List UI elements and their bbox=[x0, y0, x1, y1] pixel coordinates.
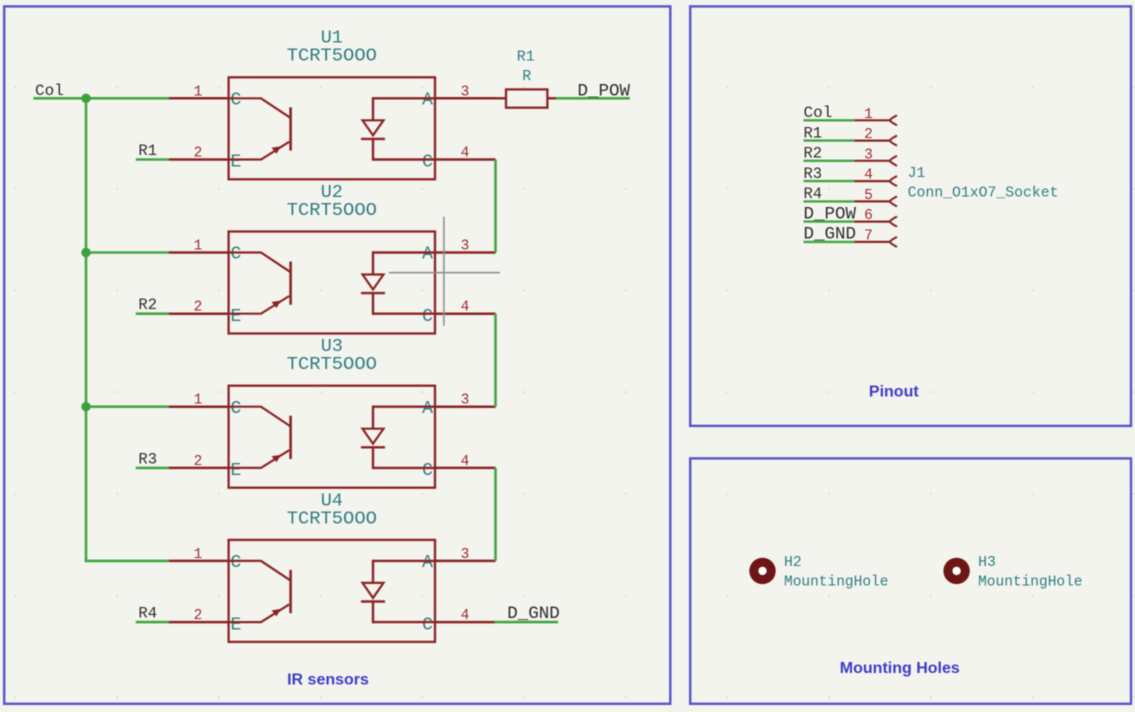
svg-text:R1: R1 bbox=[138, 142, 157, 160]
U2 pin 1 (C) bbox=[169, 251, 229, 254]
svg-text:Conn_O1xO7_Socket: Conn_O1xO7_Socket bbox=[908, 186, 1059, 202]
J1 pin 5 wire bbox=[804, 200, 855, 202]
J1 pin 5 bbox=[854, 200, 890, 202]
svg-text:A: A bbox=[422, 553, 433, 573]
group box: Pinout section bbox=[690, 6, 1131, 426]
svg-text:1: 1 bbox=[194, 239, 203, 255]
svg-text:C: C bbox=[422, 461, 433, 481]
svg-text:C: C bbox=[422, 615, 433, 635]
svg-text:J1: J1 bbox=[908, 166, 926, 182]
wire: vertical bus Col bbox=[85, 98, 88, 561]
svg-text:4: 4 bbox=[461, 146, 470, 162]
group box: Mounting Holes section bbox=[690, 458, 1131, 703]
U2 pin 2 (E) bbox=[169, 312, 229, 315]
svg-text:E: E bbox=[230, 461, 241, 481]
svg-text:C: C bbox=[422, 307, 433, 327]
U4 pin 4 (C) bbox=[435, 621, 496, 624]
connector J1 Conn_01x07_Socket bbox=[804, 104, 1059, 247]
R1 body bbox=[506, 89, 547, 107]
svg-text:4: 4 bbox=[864, 168, 873, 184]
svg-text:2: 2 bbox=[194, 300, 203, 316]
U2 pin 4 (C) bbox=[435, 312, 496, 315]
svg-text:H2: H2 bbox=[784, 555, 802, 571]
U3 pin 2 (E) bbox=[169, 467, 229, 470]
svg-text:Mounting Holes: Mounting Holes bbox=[840, 660, 960, 677]
svg-text:C: C bbox=[230, 245, 241, 265]
U1 phototransistor bbox=[229, 98, 290, 117]
svg-text:D_POW: D_POW bbox=[578, 82, 631, 102]
wire: branch to U3 pin 1 bbox=[86, 405, 169, 408]
U2 phototransistor bbox=[229, 253, 290, 272]
svg-text:4: 4 bbox=[461, 300, 470, 316]
J1 pin 3 socket contact bbox=[890, 156, 897, 166]
svg-text:R1: R1 bbox=[517, 49, 535, 66]
svg-text:E: E bbox=[230, 307, 241, 327]
svg-text:5: 5 bbox=[864, 188, 873, 204]
wire: U2 pin4 to U3 pin3 bbox=[494, 314, 497, 407]
wire: R2 to U2 pin 2 bbox=[136, 312, 169, 315]
svg-text:E: E bbox=[230, 615, 241, 635]
U1 pin 1 (C) bbox=[169, 97, 229, 100]
wire: branch to U4 pin 1 bbox=[85, 560, 169, 563]
svg-text:TCRT5OOO: TCRT5OOO bbox=[287, 199, 377, 221]
J1 pin 4 bbox=[854, 180, 890, 182]
svg-text:4: 4 bbox=[461, 454, 470, 470]
J1 pin 6 socket contact bbox=[890, 217, 897, 227]
U3 photodiode bbox=[373, 406, 435, 408]
svg-text:C: C bbox=[230, 553, 241, 573]
U4 pin 1 (C) bbox=[169, 560, 229, 563]
R1 left lead bbox=[496, 97, 507, 99]
optocoupler U2 TCRT5000 bbox=[169, 182, 496, 334]
J1 pin 7 socket contact bbox=[890, 237, 897, 247]
wire: R1 to U1 pin 2 bbox=[136, 158, 169, 161]
svg-text:H3: H3 bbox=[978, 555, 996, 571]
svg-text:1: 1 bbox=[194, 84, 203, 100]
wire: R4 to U4 pin 2 bbox=[136, 621, 169, 624]
svg-text:D_GND: D_GND bbox=[507, 604, 560, 624]
optocoupler U1 TCRT5000 bbox=[169, 28, 496, 180]
J1 pin 1 wire bbox=[804, 119, 855, 121]
svg-text:1: 1 bbox=[864, 107, 873, 123]
U3 body bbox=[229, 386, 435, 488]
U4 body bbox=[229, 540, 435, 642]
J1 pin 7 bbox=[854, 241, 890, 243]
svg-text:3: 3 bbox=[461, 84, 470, 100]
svg-text:R4: R4 bbox=[138, 605, 157, 623]
svg-text:1: 1 bbox=[194, 547, 203, 563]
mounting hole H3 bbox=[943, 555, 1082, 591]
svg-text:R: R bbox=[522, 68, 531, 85]
junction at Col / U1 branch bbox=[81, 94, 90, 103]
svg-text:R2: R2 bbox=[138, 296, 157, 314]
J1 pin 4 socket contact bbox=[890, 176, 897, 186]
svg-text:TCRT5OOO: TCRT5OOO bbox=[287, 45, 377, 67]
svg-text:A: A bbox=[422, 399, 433, 419]
U3 pin 3 (A) bbox=[435, 405, 496, 408]
svg-text:A: A bbox=[422, 245, 433, 265]
U2 body bbox=[229, 232, 435, 334]
J1 pin 6 bbox=[854, 221, 890, 223]
J1 pin 2 bbox=[854, 140, 890, 142]
U4 phototransistor bbox=[229, 561, 290, 580]
wire: U3 pin4 to U4 pin3 bbox=[494, 468, 497, 561]
U2 photodiode bbox=[373, 251, 435, 253]
wire: R1 to D_POW bbox=[556, 97, 630, 100]
svg-text:6: 6 bbox=[864, 208, 873, 224]
svg-text:3: 3 bbox=[864, 147, 873, 163]
U4 pin 3 (A) bbox=[435, 560, 496, 563]
wire: branch to U2 pin 1 bbox=[86, 251, 169, 254]
U1 pin 3 (A) bbox=[435, 97, 496, 100]
J1 pin 1 bbox=[854, 119, 890, 121]
svg-text:3: 3 bbox=[461, 239, 470, 255]
svg-text:MountingHole: MountingHole bbox=[978, 575, 1082, 591]
mounting hole H2 bbox=[749, 555, 888, 591]
J1 pin 2 wire bbox=[804, 139, 855, 141]
U1 pin 2 (E) bbox=[169, 158, 229, 161]
svg-text:MountingHole: MountingHole bbox=[784, 575, 888, 591]
wire: U4 pin4 to D_GND bbox=[494, 621, 558, 624]
J1 pin 5 socket contact bbox=[890, 196, 897, 206]
svg-text:4: 4 bbox=[461, 608, 470, 624]
svg-text:TCRT5OOO: TCRT5OOO bbox=[287, 353, 377, 375]
U2 pin 3 (A) bbox=[435, 251, 496, 254]
svg-text:3: 3 bbox=[461, 547, 470, 563]
J1 pin 4 wire bbox=[804, 180, 855, 182]
J1 pin 1 socket contact bbox=[890, 115, 897, 125]
optocoupler U4 TCRT5000 bbox=[169, 490, 496, 642]
wire: R3 to U3 pin 2 bbox=[136, 467, 169, 470]
J1 pin 6 wire bbox=[804, 220, 855, 222]
J1 pin 3 bbox=[854, 160, 890, 162]
editor cursor crosshair bbox=[389, 217, 500, 326]
R1 right lead bbox=[547, 97, 556, 99]
svg-text:Pinout: Pinout bbox=[869, 384, 919, 401]
svg-text:2: 2 bbox=[194, 608, 203, 624]
U4 photodiode bbox=[373, 560, 435, 562]
resistor R1 bbox=[496, 49, 557, 108]
J1 pin 7 wire bbox=[804, 241, 855, 243]
wire: Col to U1 pin 1 bbox=[33, 97, 169, 100]
svg-text:TCRT5OOO: TCRT5OOO bbox=[287, 507, 377, 529]
U1 body bbox=[229, 77, 435, 179]
svg-text:E: E bbox=[230, 153, 241, 173]
optocoupler U3 TCRT5000 bbox=[169, 336, 496, 488]
junction at U2 branch bbox=[81, 248, 90, 257]
U3 pin 4 (C) bbox=[435, 467, 496, 470]
svg-text:3: 3 bbox=[461, 393, 470, 409]
svg-text:C: C bbox=[230, 91, 241, 111]
svg-text:A: A bbox=[422, 91, 433, 111]
svg-text:C: C bbox=[422, 153, 433, 173]
svg-text:C: C bbox=[230, 399, 241, 419]
J1 pin 2 socket contact bbox=[890, 136, 897, 146]
svg-text:R3: R3 bbox=[138, 450, 157, 468]
U3 phototransistor bbox=[229, 407, 290, 426]
svg-text:7: 7 bbox=[864, 228, 873, 244]
svg-text:IR sensors: IR sensors bbox=[287, 671, 369, 688]
wire: U1 pin4 to U2 pin3 bbox=[494, 160, 497, 253]
junction at U3 branch bbox=[81, 402, 90, 411]
svg-text:1: 1 bbox=[194, 393, 203, 409]
U3 pin 1 (C) bbox=[169, 405, 229, 408]
U1 pin 4 (C) bbox=[435, 158, 496, 161]
svg-text:2: 2 bbox=[864, 127, 873, 143]
U1 photodiode bbox=[373, 97, 435, 99]
U4 pin 2 (E) bbox=[169, 621, 229, 624]
svg-text:2: 2 bbox=[194, 454, 203, 470]
J1 pin 3 wire bbox=[804, 160, 855, 162]
group box: IR sensors section bbox=[4, 6, 670, 703]
svg-text:2: 2 bbox=[194, 146, 203, 162]
